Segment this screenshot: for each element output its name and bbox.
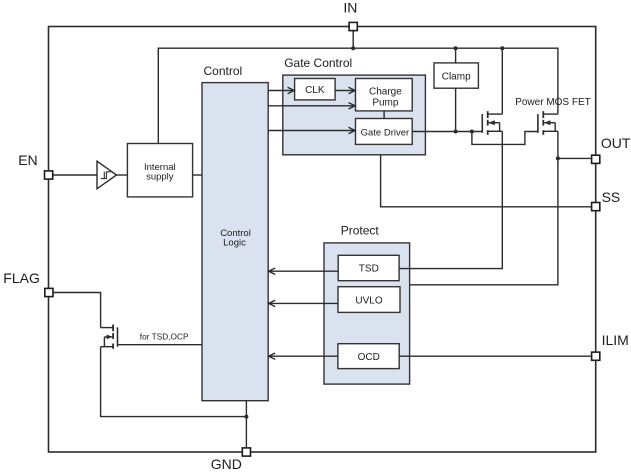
svg-text:Protect: Protect: [341, 223, 380, 237]
wire EN terminal to buffer input: [53, 174, 97, 176]
wire Gate Control block to SS terminal: [381, 155, 592, 207]
svg-text:Logic: Logic: [223, 237, 246, 248]
wire gate branch to right FET gate: [472, 132, 538, 145]
svg-text:for TSD,OCP: for TSD,OCP: [140, 332, 189, 342]
wire Control Logic to GND terminal: [245, 401, 247, 448]
box UVLO: [338, 287, 400, 313]
junction dot gate branch: [470, 130, 474, 134]
svg-text:OUT: OUT: [601, 135, 631, 151]
svg-text:Charge: Charge: [369, 87, 402, 98]
terminal FLAG: [45, 288, 53, 296]
junction dot at OUT branch: [556, 156, 560, 160]
svg-text:Clamp: Clamp: [442, 71, 471, 82]
wire left FET drain vertical: [501, 48, 503, 114]
wire right FET source down to UVLO sense line: [410, 131, 558, 284]
terminal OUT: [592, 155, 600, 163]
wire Control Logic to Charge Pump with arrow: [268, 103, 355, 109]
transistor Q2 power MOS FET right: [538, 111, 558, 135]
wire Clamp bottom to gate line: [455, 88, 457, 131]
op-amp U2 Schmitt buffer: [97, 161, 117, 189]
wire Clamp top connection: [455, 48, 457, 63]
wire Q3 gate to Control Logic: [118, 344, 203, 346]
wire CLK to Charge Pump with arrow: [335, 87, 355, 93]
svg-text:CLK: CLK: [305, 85, 325, 96]
transistor Q1 power MOS FET left: [482, 111, 502, 135]
svg-text:supply: supply: [146, 171, 174, 182]
wire Internal supply to Control Logic: [193, 174, 202, 176]
wire VIN rail: internal supply top to right FET drain: [158, 48, 558, 143]
box CLK: [295, 79, 336, 100]
wire Q3 source to ground path: [101, 347, 247, 417]
wire OUT terminal branch: [558, 157, 592, 159]
wire Charge Pump to Gate Driver: [383, 111, 385, 119]
box Gate Driver: [356, 119, 413, 145]
box Charge Pump: [356, 79, 413, 111]
junction dot on rail at left FET drain: [500, 46, 504, 50]
box OCD: [338, 344, 399, 369]
junction dot at ground path: [244, 415, 248, 419]
svg-text:TSD: TSD: [359, 264, 379, 275]
svg-text:OCD: OCD: [358, 352, 380, 363]
wire OCD to Control Logic with arrow: [269, 353, 338, 359]
svg-text:ILIM: ILIM: [602, 332, 629, 348]
wire gate driver output to left FET gate: [412, 131, 482, 133]
wire IN terminal drop to rail: [352, 31, 354, 49]
wire UVLO to Control Logic with arrow: [269, 300, 338, 306]
svg-text:Power MOS FET: Power MOS FET: [515, 97, 591, 108]
transistor Q3 flag open-drain FET: [101, 325, 118, 349]
svg-text:UVLO: UVLO: [355, 295, 382, 306]
wire TSD to Control Logic with arrow: [269, 268, 339, 274]
svg-text:FLAG: FLAG: [3, 270, 40, 286]
junction dot on gate line at Clamp: [454, 130, 458, 134]
terminal IN: [349, 22, 357, 30]
svg-text:EN: EN: [18, 152, 37, 168]
svg-text:Control: Control: [204, 64, 243, 78]
box Clamp: [434, 63, 478, 88]
box TSD: [338, 255, 399, 280]
svg-text:GND: GND: [211, 456, 242, 472]
block Gate Control: [283, 75, 426, 155]
wire Control Logic to Gate Driver with arrow: [268, 127, 355, 133]
junction dot on rail at Clamp: [454, 46, 458, 50]
junction dot on rail at IN: [351, 46, 355, 50]
outer boundary rectangle of IC: [49, 27, 596, 453]
svg-text:IN: IN: [343, 0, 357, 16]
svg-text:Gate Control: Gate Control: [284, 56, 352, 70]
svg-text:Gate Driver: Gate Driver: [361, 128, 410, 139]
wire OCD to ILIM terminal: [399, 355, 591, 357]
wire buffer output to Internal supply: [117, 174, 128, 176]
wire Control Logic to CLK with arrow: [268, 87, 294, 93]
block Protect: [324, 243, 410, 384]
wire FLAG terminal to Q3 drain: [53, 293, 101, 328]
terminal GND: [242, 448, 250, 456]
block Control Logic U-CTRL: [202, 83, 268, 401]
svg-text:SS: SS: [602, 189, 621, 205]
terminal EN: [45, 171, 53, 179]
box Internal supply: [127, 144, 192, 197]
terminal SS: [592, 203, 600, 211]
wire left FET source down to TSD output: [399, 131, 502, 268]
svg-text:Pump: Pump: [372, 98, 399, 109]
terminal ILIM: [592, 352, 600, 360]
